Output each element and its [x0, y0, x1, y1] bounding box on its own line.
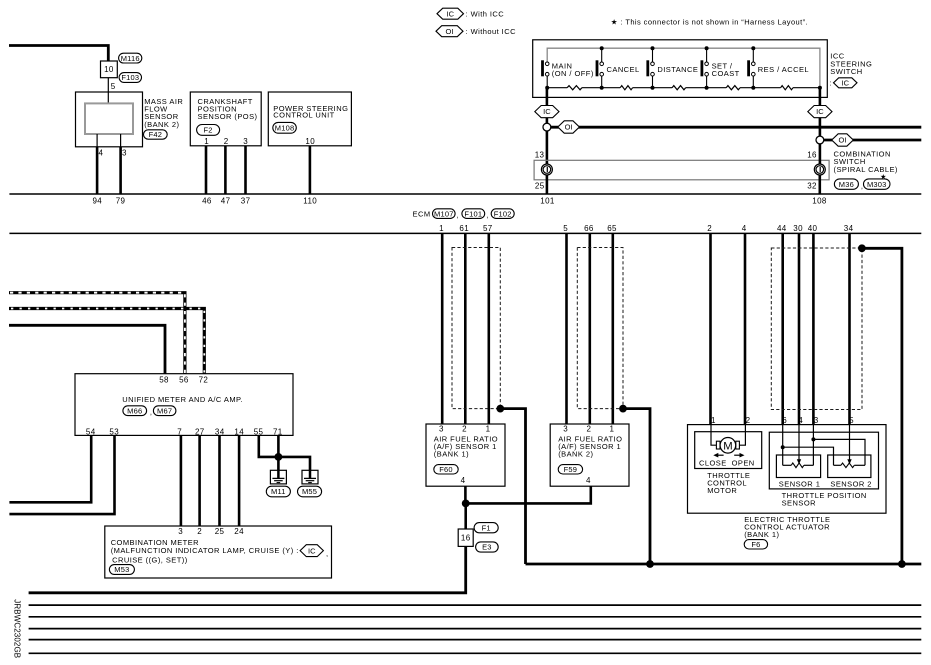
- bus line 4: [29, 639, 922, 641]
- svg-text:5: 5: [111, 82, 116, 91]
- svg-text:M108: M108: [275, 124, 295, 133]
- shield drain junction bank2: [619, 405, 627, 413]
- combination switch spiral cable box (gray): [534, 160, 829, 180]
- wire: junction circle to spiral cable pin 13: [546, 131, 549, 164]
- combination meter box M53: [105, 526, 332, 578]
- throttle control motor M symbol: [720, 438, 736, 454]
- wire: unified meter pin 14 to combination meter pin 24: [238, 435, 241, 526]
- svg-text:IC: IC: [842, 78, 850, 87]
- OI hexagon right: [832, 134, 854, 146]
- close arrow: [718, 454, 724, 456]
- svg-text:2: 2: [707, 224, 712, 233]
- shield drain junction TPS: [858, 244, 866, 252]
- svg-text:1: 1: [204, 137, 209, 146]
- svg-text:(BANK 2): (BANK 2): [558, 450, 593, 459]
- wire: A/F bank1 pin 4 down: [464, 486, 467, 503]
- harness bus line upper: [9, 193, 921, 195]
- wire: ECM 66 to A/F sensor1 bank2 pin 2 (shielded): [588, 233, 591, 424]
- svg-text:,: ,: [457, 211, 460, 220]
- sensor 2 box: [828, 455, 871, 478]
- resistor in ICC switch (DISTANCE): [672, 86, 686, 90]
- svg-text:SENSOR 1: SENSOR 1: [779, 479, 821, 488]
- mass air flow sensor outer box F42: [76, 92, 143, 147]
- unified meter and A/C amp box: [75, 374, 293, 436]
- IC hexagon at ICC switch label: [834, 78, 858, 88]
- connector box 16 (F1/E3): [458, 529, 473, 546]
- wire: spiral cable pin 25 to ECM 101: [546, 175, 549, 194]
- svg-text:13: 13: [535, 151, 545, 160]
- svg-text:3: 3: [122, 149, 127, 158]
- svg-text:E3: E3: [482, 543, 492, 552]
- wire: line to unified meter pin 58: [9, 325, 165, 373]
- open arrow: [734, 454, 740, 456]
- svg-text:SENSOR (POS): SENSOR (POS): [198, 112, 258, 121]
- wire: without-ICC line to right margin: [551, 126, 922, 129]
- junction of sensor grounds: [462, 500, 470, 508]
- crankshaft position sensor box F2: [190, 92, 261, 146]
- svg-text:57: 57: [483, 224, 493, 233]
- svg-text:M36: M36: [839, 180, 854, 189]
- wire: MAF pin 3 to ECM 79: [119, 147, 122, 194]
- svg-text:5: 5: [563, 224, 568, 233]
- wire: shield drain bank2 to ground run: [623, 409, 650, 564]
- svg-text:M116: M116: [121, 54, 140, 63]
- svg-text:5: 5: [849, 416, 854, 425]
- svg-text:CONTROL UNIT: CONTROL UNIT: [273, 110, 334, 119]
- svg-text:72: 72: [199, 375, 209, 384]
- svg-text:RES / ACCEL: RES / ACCEL: [758, 65, 809, 74]
- svg-text:M53: M53: [114, 565, 129, 574]
- throttle control motor box: [695, 432, 762, 469]
- connector ref M303: [864, 179, 891, 189]
- svg-text:IC: IC: [308, 546, 316, 555]
- IC hexagon right: [808, 106, 832, 118]
- switch MAIN (ON/OFF): [541, 60, 544, 76]
- wire: IC hexagon to junction circle: [546, 118, 549, 124]
- wire: pin 5 into MAF sensor: [107, 78, 109, 104]
- svg-text:IC: IC: [816, 107, 824, 116]
- svg-text:37: 37: [241, 197, 251, 206]
- svg-text:58: 58: [159, 375, 169, 384]
- svg-text:10: 10: [104, 65, 114, 74]
- wire: unified meter pin 54 to page edge: [9, 435, 91, 502]
- svg-text:DISTANCE: DISTANCE: [657, 65, 698, 74]
- wire: PS pin 10 to ECM 110: [309, 146, 312, 194]
- svg-text:24: 24: [234, 527, 244, 536]
- svg-text:47: 47: [221, 197, 231, 206]
- svg-text::: :: [830, 79, 833, 88]
- svg-text:(ON / OFF): (ON / OFF): [552, 69, 594, 78]
- svg-text:27: 27: [195, 427, 205, 436]
- ground junction dot: [275, 453, 283, 461]
- wire: ECM 34 to TPS pin 5 (shielded): [848, 233, 851, 424]
- wire: ICC switch left output to IC connector: [546, 88, 549, 107]
- svg-text:ECM: ECM: [413, 210, 431, 219]
- wire: ECM 5 to A/F sensor1 bank2 pin 3: [565, 233, 568, 424]
- resistor in ICC switch (SET/COAST): [726, 86, 740, 90]
- svg-text:COAST: COAST: [712, 69, 740, 78]
- svg-text:3: 3: [178, 527, 183, 536]
- svg-text:1: 1: [439, 224, 444, 233]
- bus line 3: [29, 628, 922, 630]
- switch CANCEL: [600, 46, 604, 50]
- svg-text:,: ,: [150, 408, 153, 417]
- junction circle left (with/without ICC split): [543, 123, 551, 131]
- switch SET/COAST: [705, 46, 709, 50]
- svg-text:2: 2: [462, 425, 467, 434]
- wire: POS pin 1 to ECM 46: [205, 146, 208, 194]
- wire: ECM 57 to A/F sensor1 bank1 pin 1 (shielded): [487, 233, 490, 424]
- wire: MAF pin 4 inside box: [96, 134, 98, 147]
- connector ref F1: [474, 523, 498, 533]
- wire: unified meter pin 27 to combination meter pin 2: [198, 435, 201, 526]
- svg-text:44: 44: [777, 224, 787, 233]
- wire: ECM 40 to TPS pin 3 (shielded): [812, 233, 815, 424]
- wire: unified meter pin 55 to ground junction: [259, 435, 279, 457]
- svg-text:(BANK 1): (BANK 1): [434, 450, 469, 459]
- connector ref M36: [834, 179, 858, 189]
- bottom rail end junction: [818, 86, 822, 90]
- connector ref M53: [109, 565, 134, 575]
- wire: IC hexagon to junction circle right: [819, 118, 822, 137]
- wire: unified meter pin 34 to combination meter pin 25: [218, 435, 221, 526]
- svg-text:OI: OI: [565, 123, 573, 132]
- junction circle right: [816, 136, 824, 144]
- svg-text:M107: M107: [434, 209, 454, 218]
- svg-text:71: 71: [273, 427, 283, 436]
- svg-text:4: 4: [742, 224, 747, 233]
- svg-text:(BANK 1): (BANK 1): [744, 530, 779, 539]
- svg-text:6: 6: [782, 416, 787, 425]
- wire: TPS pin 4 wiper arrow sensor 1: [798, 425, 800, 460]
- bus line 5: [29, 652, 922, 654]
- wire: MAF pin 3 inside box: [120, 134, 122, 147]
- wire: sensor ground junction to A/F bank2 pin 4: [466, 486, 591, 503]
- svg-text:1: 1: [609, 425, 614, 434]
- wire: TPS pin 5 wiper arrow sensor 2: [849, 425, 851, 460]
- svg-text:34: 34: [215, 427, 225, 436]
- svg-text:JRBWC2302GB: JRBWC2302GB: [13, 599, 22, 658]
- electric throttle control actuator outer box F6: [688, 425, 887, 514]
- svg-text:2: 2: [586, 425, 591, 434]
- svg-text:M: M: [723, 440, 732, 452]
- power steering control unit box M108: [268, 92, 351, 146]
- wire: MAF pin 4 to ECM 94: [96, 147, 99, 194]
- svg-text:SENSOR 2: SENSOR 2: [830, 479, 872, 488]
- svg-text:46: 46: [202, 197, 212, 206]
- switch RES/ACCEL: [751, 46, 755, 50]
- svg-text:65: 65: [607, 224, 617, 233]
- svg-text:54: 54: [86, 427, 96, 436]
- svg-text:F60: F60: [439, 465, 453, 474]
- svg-text:IC: IC: [447, 9, 455, 18]
- svg-text:56: 56: [179, 375, 189, 384]
- wire: battery feed to connector M116/F103 pin 10: [9, 46, 108, 62]
- connector ref M55: [298, 486, 322, 497]
- svg-text:CRUISE ((G), SET)): CRUISE ((G), SET)): [112, 555, 188, 564]
- svg-text:F6: F6: [751, 540, 760, 549]
- svg-text:★ : This connector is not show: ★ : This connector is not shown in “Harn…: [611, 17, 808, 26]
- resistor in ICC switch (CANCEL): [620, 86, 632, 90]
- wire: unified meter pin 7 to combination meter pin 3: [180, 435, 183, 526]
- inline IC hexagon in combination meter label: [300, 545, 323, 557]
- shield around bank1 sensor wires: [452, 248, 500, 409]
- svg-text:M55: M55: [302, 487, 317, 496]
- resistor in ICC switch (RES/ACCEL): [781, 86, 793, 90]
- OI hexagon left: [558, 121, 580, 133]
- svg-text:F2: F2: [204, 126, 213, 135]
- svg-text:F103: F103: [121, 73, 139, 82]
- wire: TPS pin 3 into sensor 1 high side: [812, 425, 814, 466]
- sensor 2 potentiometer: [834, 464, 841, 466]
- svg-text:25: 25: [215, 527, 225, 536]
- svg-text:14: 14: [234, 427, 244, 436]
- wire: ECM 4 to throttle motor pin 2: [744, 233, 747, 424]
- svg-text:CANCEL: CANCEL: [607, 65, 640, 74]
- wire: unified meter pin 71 to ground M11: [277, 435, 280, 470]
- wire: POS pin 2 to ECM 47: [224, 146, 227, 194]
- svg-text:MOTOR: MOTOR: [707, 486, 737, 495]
- wire: unified meter pin 53 to page edge: [9, 435, 114, 514]
- shield around TPS wires: [771, 248, 862, 410]
- svg-text:101: 101: [540, 197, 555, 206]
- wire: spiral cable pin 32 to ECM 108: [818, 175, 821, 194]
- wire: shield drain bank1 to ground run: [500, 409, 525, 564]
- svg-text:M303: M303: [867, 180, 887, 189]
- svg-text:: Without ICC: : Without ICC: [466, 27, 517, 36]
- svg-text:CLOSE: CLOSE: [699, 458, 727, 467]
- svg-text:110: 110: [303, 197, 317, 206]
- connector ref E3: [476, 542, 499, 552]
- svg-text:OI: OI: [446, 27, 454, 36]
- wire: ECM 65 to A/F sensor1 bank2 pin 1 (shielded): [611, 233, 614, 424]
- connector ref F42: [144, 130, 168, 139]
- junction on pin 6 wire: [781, 445, 785, 449]
- junction: bank2 shield to ground run: [646, 560, 654, 568]
- svg-text:4: 4: [586, 476, 591, 485]
- svg-text:,: ,: [487, 211, 490, 220]
- svg-text:16: 16: [807, 151, 817, 160]
- shield drain junction bank1: [496, 405, 504, 413]
- svg-text:M66: M66: [127, 406, 142, 415]
- connector ref F2: [197, 125, 220, 136]
- switch DISTANCE: [651, 46, 655, 50]
- shield around bank2 sensor wires: [577, 248, 623, 409]
- wire: ECM 44 to TPS pin 6 (shielded): [781, 233, 784, 424]
- bus line 2: [29, 616, 922, 618]
- svg-text:F1: F1: [482, 523, 491, 532]
- connector ref M116: [119, 53, 142, 63]
- svg-text:2: 2: [197, 527, 202, 536]
- wire: without-ICC right line to margin: [824, 139, 922, 142]
- wire: ECM 2 to throttle motor pin 1: [709, 233, 712, 424]
- svg-text:40: 40: [808, 224, 818, 233]
- svg-text:F101: F101: [464, 209, 482, 218]
- wire: ICC switch right output to IC connector: [819, 88, 822, 107]
- svg-text:1: 1: [711, 416, 716, 425]
- svg-text:16: 16: [461, 534, 471, 543]
- svg-text:OI: OI: [839, 136, 847, 145]
- svg-text:OPEN: OPEN: [732, 458, 755, 467]
- svg-text:IC: IC: [543, 107, 551, 116]
- svg-text:4: 4: [798, 416, 803, 425]
- svg-text:3: 3: [439, 425, 444, 434]
- ICC steering switch outer box: [533, 40, 828, 98]
- connector ref M11: [266, 486, 290, 497]
- connector box 10 (M116/F103): [101, 61, 118, 78]
- svg-text:,: ,: [326, 549, 329, 558]
- svg-text:(BANK 2): (BANK 2): [144, 120, 179, 129]
- connector ref M66: [123, 406, 147, 416]
- wire: connector 16 down and left to page edge: [29, 546, 466, 592]
- IC hexagon left: [535, 106, 559, 118]
- svg-text:30: 30: [793, 224, 803, 233]
- ground M55: [302, 470, 318, 484]
- ECM bus line: [9, 232, 921, 234]
- wire: actuator pin 1 to motor: [711, 425, 716, 446]
- junction on pin 3 wire: [811, 437, 815, 441]
- motor terminal brackets: [716, 441, 720, 449]
- svg-text:108: 108: [812, 197, 827, 206]
- junction: TPS shield to ground run: [898, 560, 906, 568]
- mass air flow sensor element: [85, 103, 133, 134]
- svg-text:UNIFIED METER AND A/C AMP.: UNIFIED METER AND A/C AMP.: [122, 395, 243, 404]
- wire: CAN shielded line to unified meter pin 56: [9, 293, 185, 374]
- svg-text:79: 79: [116, 197, 126, 206]
- wire: TPS shield drain to ground run: [862, 248, 902, 564]
- air fuel ratio sensor 1 bank 2 box F59: [550, 424, 629, 486]
- wire: junction circle to spiral cable pin 16: [819, 144, 822, 164]
- svg-text:F102: F102: [494, 209, 512, 218]
- svg-text:(SPIRAL CABLE): (SPIRAL CABLE): [834, 165, 898, 174]
- svg-text:F42: F42: [149, 130, 163, 139]
- svg-text:34: 34: [844, 224, 854, 233]
- air fuel ratio sensor 1 bank 1 box F60: [426, 424, 505, 486]
- svg-text:4: 4: [461, 476, 466, 485]
- wire: junction down to connector 16: [464, 503, 467, 529]
- svg-text:2: 2: [746, 416, 751, 425]
- wire: pin 3 branch to sensor 2 high side: [813, 439, 865, 465]
- svg-text:SENSOR: SENSOR: [782, 498, 817, 507]
- wire: ECM 30 to TPS pin 4 (shielded): [798, 233, 801, 424]
- svg-text:25: 25: [535, 182, 545, 191]
- connector ref M108: [273, 122, 297, 133]
- svg-text:55: 55: [254, 427, 264, 436]
- bus line 1: [29, 604, 922, 606]
- connector ref F6: [744, 540, 767, 549]
- svg-text:61: 61: [459, 224, 469, 233]
- ICC switch bottom rail segments: [547, 87, 567, 89]
- wire: CAN shielded line to unified meter pin 72: [9, 309, 204, 374]
- wire: ECM 1 to A/F sensor1 bank1 pin 3: [441, 233, 444, 424]
- svg-text:: With ICC: : With ICC: [466, 10, 505, 19]
- svg-text:SWITCH: SWITCH: [830, 67, 862, 76]
- svg-text:M11: M11: [271, 487, 286, 496]
- svg-text:66: 66: [584, 224, 594, 233]
- resistor in ICC switch (MAIN): [567, 86, 582, 90]
- spiral cable contact left: [541, 164, 552, 175]
- connector ref F60: [434, 465, 458, 474]
- svg-text:10: 10: [305, 137, 315, 146]
- sensor 1 box: [776, 455, 820, 478]
- svg-text:M67: M67: [157, 406, 172, 415]
- svg-text:F59: F59: [564, 465, 578, 474]
- wire: TPS pin 6 into sensor 1: [782, 425, 784, 466]
- wire: POS pin 3 to ECM 37: [244, 146, 247, 194]
- connector ref M67: [153, 406, 176, 416]
- legend IC hexagon: With ICC: [437, 8, 464, 19]
- wire: ECM 61 to A/F sensor1 bank1 pin 2 (shielded): [464, 233, 467, 424]
- svg-text:(MALFUNCTION INDICATOR LAMP, C: (MALFUNCTION INDICATOR LAMP, CRUISE (Y) …: [111, 546, 299, 555]
- wire: sensor shield ground run: [526, 563, 922, 566]
- svg-text:94: 94: [92, 197, 102, 206]
- ICC switch internal supply rail (gray): [547, 48, 820, 87]
- svg-text:3: 3: [563, 425, 568, 434]
- wire: pin 6 branch to sensor 2 low side: [783, 447, 834, 465]
- svg-text:3: 3: [814, 416, 819, 425]
- spiral cable contact right: [814, 164, 825, 175]
- svg-text:2: 2: [224, 137, 229, 146]
- svg-text:3: 3: [243, 137, 248, 146]
- sensor 1 potentiometer: [783, 464, 792, 466]
- svg-text:4: 4: [98, 149, 103, 158]
- legend OI hexagon: Without ICC: [436, 26, 463, 37]
- wire: actuator pin 2 to motor: [739, 425, 745, 446]
- ground M11: [270, 470, 286, 484]
- svg-text:7: 7: [177, 427, 182, 436]
- throttle position sensor box: [769, 432, 878, 489]
- wire: ground junction to ground M55: [278, 457, 310, 471]
- connector ref F59: [558, 465, 582, 474]
- connector ref F103: [119, 73, 141, 83]
- svg-text:1: 1: [486, 425, 491, 434]
- svg-text:32: 32: [807, 182, 817, 191]
- svg-text:53: 53: [109, 427, 119, 436]
